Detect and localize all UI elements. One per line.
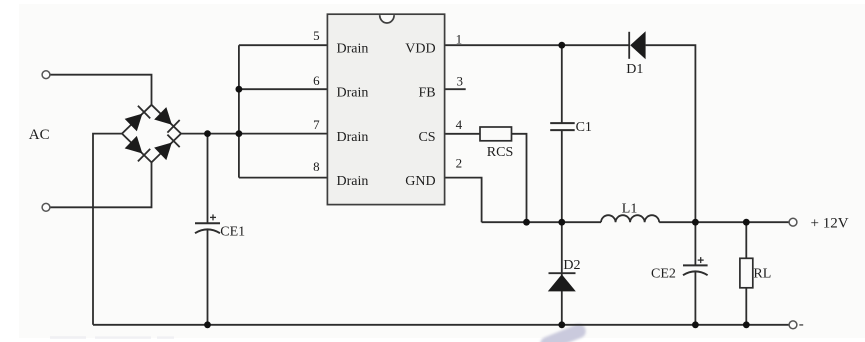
wire: CE2 top lead xyxy=(694,222,696,265)
wire: C1 top lead xyxy=(561,45,563,123)
wire: C1 bottom lead xyxy=(561,130,563,222)
wire: L1 to +12V terminal xyxy=(659,221,789,223)
wire: pin 6 stub xyxy=(239,88,328,90)
wire: top AC terminal to bridge top xyxy=(50,75,152,105)
svg-text:AC: AC xyxy=(29,127,50,143)
svg-text:CE1: CE1 xyxy=(220,224,245,239)
CE1 polarity plus xyxy=(210,214,216,220)
wire: pin 4 CS to RCS xyxy=(445,133,480,135)
wire: pin 1 VDD to D1 xyxy=(445,44,630,46)
svg-text:Drain: Drain xyxy=(337,174,369,189)
svg-text:Drain: Drain xyxy=(337,130,369,145)
svg-text:3: 3 xyxy=(457,74,464,89)
bridge rectifier B1 diamond xyxy=(122,105,181,163)
svg-text:C1: C1 xyxy=(576,120,592,135)
CE2 polarity plus xyxy=(698,257,704,263)
bridge diode bottom-right xyxy=(154,135,180,161)
wire: RCS to switch rail xyxy=(512,134,527,222)
svg-text:RCS: RCS xyxy=(487,145,513,160)
wire: RL bottom lead xyxy=(745,288,747,325)
wire: pin 2 GND down to switch rail xyxy=(445,178,482,223)
junction: DC bus / CE1 xyxy=(204,130,211,137)
junction: +12V rail / RL xyxy=(743,219,750,226)
wire: CE1 branch from DC bus xyxy=(207,134,209,224)
capacitor CE2 xyxy=(683,265,708,275)
watermark swoosh xyxy=(538,322,588,342)
junction: switch rail / RCS drop xyxy=(523,219,530,226)
svg-text:-: - xyxy=(799,317,804,333)
bridge diode top-left xyxy=(125,106,151,132)
terminal: AC top xyxy=(42,71,50,79)
svg-text:D1: D1 xyxy=(626,62,643,77)
svg-text:7: 7 xyxy=(313,117,320,132)
wire: bottom AC terminal to bridge bottom xyxy=(50,162,152,207)
capacitor CE1 xyxy=(195,223,220,233)
inductor L1 xyxy=(601,215,659,222)
junction: D2 negative rail xyxy=(558,321,565,328)
wire: D2 branch xyxy=(561,222,563,325)
svg-text:L1: L1 xyxy=(622,201,638,216)
svg-text:5: 5 xyxy=(313,28,320,43)
svg-text:8: 8 xyxy=(313,159,320,174)
wire: pin 5 stub xyxy=(239,44,328,46)
svg-text:6: 6 xyxy=(313,73,320,88)
svg-text:+ 12V: + 12V xyxy=(811,215,849,231)
junction: DC bus / drain bus xyxy=(236,130,243,137)
junction: drain bus pin 6 xyxy=(236,86,243,93)
bridge diode bottom-left xyxy=(125,136,151,162)
resistor RCS xyxy=(480,127,512,141)
wire: bridge right corner to IC pin 7 xyxy=(181,133,327,135)
svg-text:Drain: Drain xyxy=(337,85,369,100)
bridge diode top-right xyxy=(154,107,180,133)
wire: pin 8 stub xyxy=(239,177,328,179)
svg-text:1: 1 xyxy=(456,32,463,47)
capacitor C1 xyxy=(550,123,575,130)
terminal: AC bottom xyxy=(42,203,50,211)
wire: CE2 bottom lead xyxy=(694,272,696,325)
svg-text:VDD: VDD xyxy=(405,41,435,56)
wire: switch rail to L1 xyxy=(482,221,601,223)
diode D2 xyxy=(548,273,576,291)
wire: drain bus vertical xyxy=(238,45,240,177)
wire: RL top lead xyxy=(745,222,747,258)
IC U1 notch xyxy=(380,15,394,23)
svg-text:FB: FB xyxy=(418,85,435,100)
wire: bottom negative rail xyxy=(93,324,789,326)
svg-text:2: 2 xyxy=(456,156,463,171)
terminal: negative output xyxy=(789,321,797,329)
junction: CE1 negative rail xyxy=(204,321,211,328)
resistor RL xyxy=(740,258,753,288)
junction: RL negative rail xyxy=(743,321,750,328)
svg-text:CS: CS xyxy=(418,130,435,145)
wire: pin 3 FB stub xyxy=(445,88,466,90)
junction: +12V rail / CE2 xyxy=(692,219,699,226)
terminal: +12V output xyxy=(789,218,797,226)
svg-text:Drain: Drain xyxy=(337,41,369,56)
svg-text:4: 4 xyxy=(456,117,463,132)
junction: VDD wire / C1 xyxy=(558,42,565,49)
svg-text:CE2: CE2 xyxy=(651,267,676,282)
diode D1 xyxy=(629,31,645,59)
svg-text:D2: D2 xyxy=(563,258,580,273)
svg-text:GND: GND xyxy=(405,174,435,189)
junction: switch rail / C1-D2 xyxy=(558,219,565,226)
junction: CE2 negative rail xyxy=(692,321,699,328)
wire: bridge left corner to negative bus xyxy=(93,134,122,325)
wire: CE1 lower lead to negative rail xyxy=(207,230,209,325)
faint caption remnants xyxy=(50,336,174,339)
wire: D1 cathode side to right drop xyxy=(646,45,696,222)
svg-text:RL: RL xyxy=(753,267,771,282)
IC U1 body xyxy=(327,14,444,204)
